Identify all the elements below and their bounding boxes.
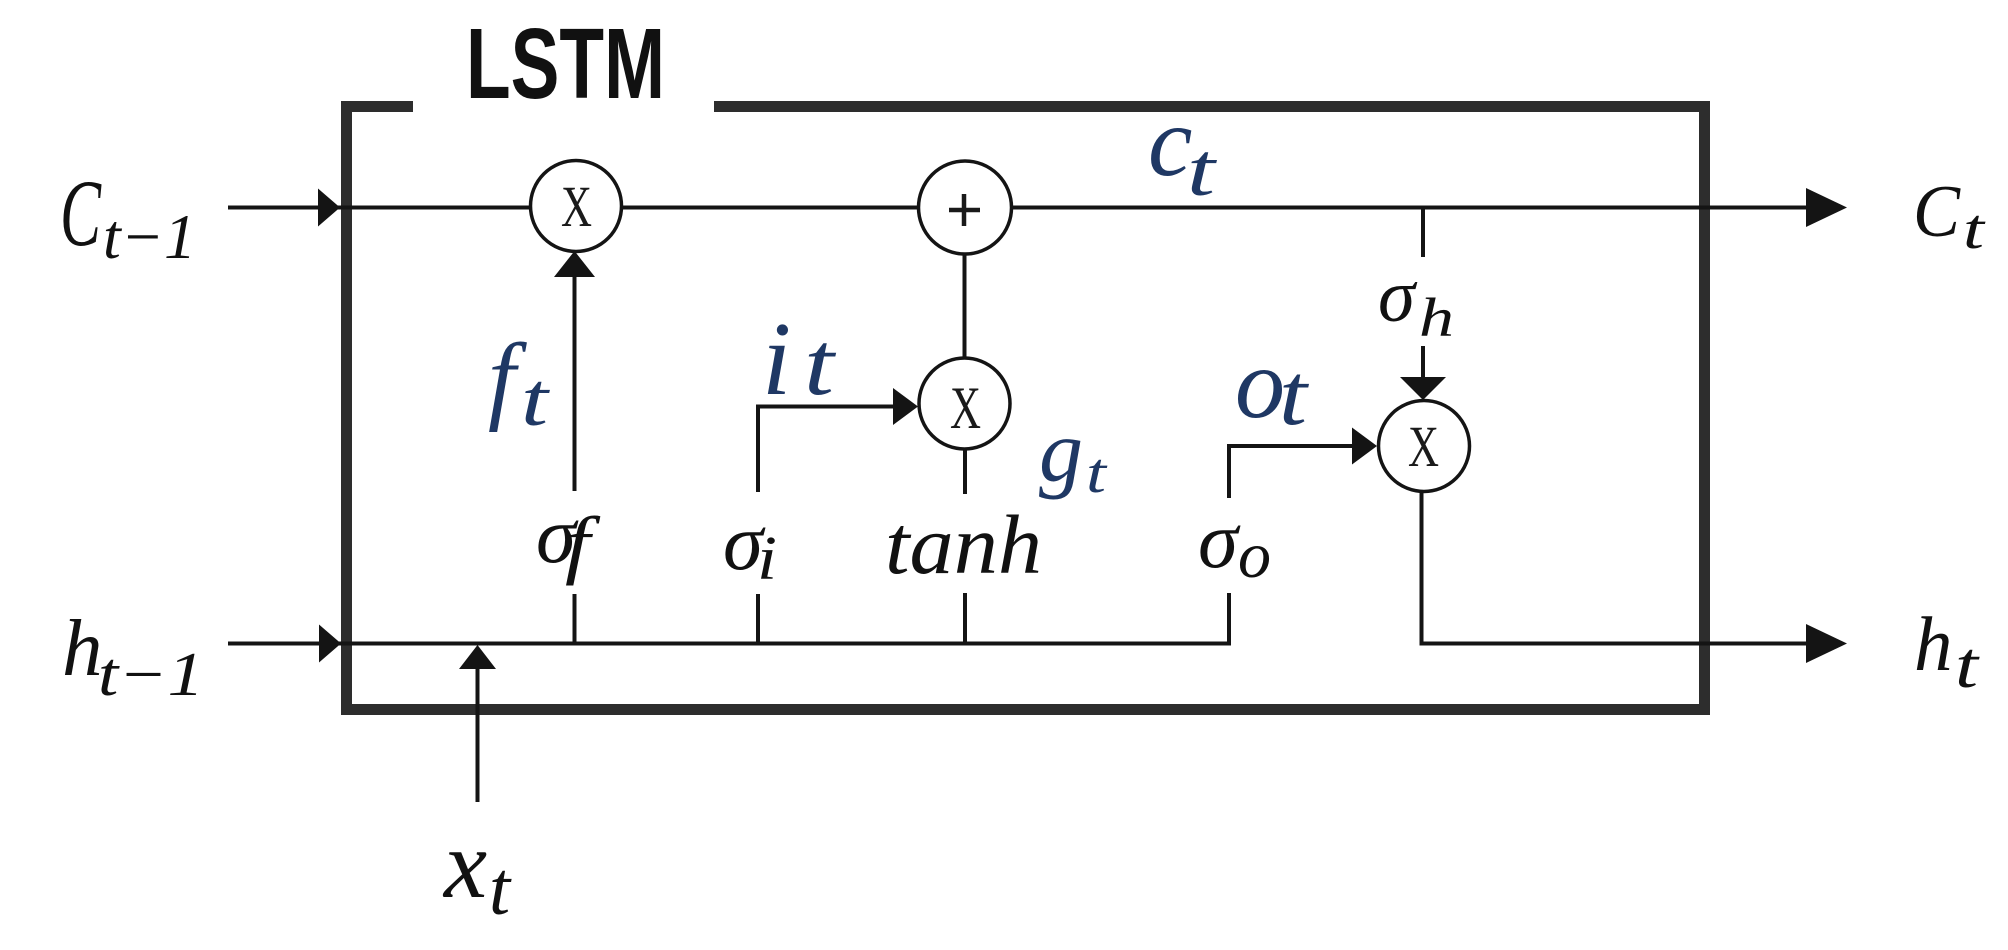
svg-text:h: h (62, 603, 103, 693)
wire sigma_o lower tick (1227, 593, 1231, 646)
arrowhead h input at box (319, 625, 341, 663)
arrowhead c output (1806, 188, 1847, 227)
LSTM cell box bottom border (341, 704, 1710, 715)
svg-text:t−1: t−1 (98, 641, 204, 709)
wire o_t elbow into X3 (1229, 446, 1353, 498)
svg-text:X: X (561, 174, 592, 239)
svg-text:σ: σ (1198, 495, 1241, 585)
svg-text:i: i (762, 300, 791, 417)
svg-text:g: g (1039, 404, 1083, 501)
LSTM cell box right border (1699, 101, 1710, 715)
wire tanh lower tick (963, 593, 967, 646)
wire cell-state line c (228, 206, 1808, 210)
svg-text:c: c (1148, 86, 1192, 197)
svg-text:t: t (1187, 129, 1218, 212)
svg-text:LSTM: LSTM (466, 8, 665, 120)
svg-text:t: t (1086, 442, 1107, 505)
svg-text:t: t (489, 847, 512, 931)
wire sigma_i lower tick (756, 594, 760, 646)
LSTM cell box left border (341, 101, 352, 715)
wire x_t input arrow (476, 668, 480, 802)
wire plus to X2 connector (963, 250, 967, 362)
wire i_t elbow into X2 (758, 407, 894, 493)
svg-text:i: i (757, 525, 777, 593)
svg-text:h: h (1419, 287, 1454, 348)
svg-text:h: h (1914, 601, 1953, 687)
svg-text:C: C (60, 160, 102, 266)
svg-text:t: t (804, 315, 836, 414)
svg-text:X: X (950, 375, 981, 441)
op multiply X2 (919, 358, 1010, 449)
svg-text:σ: σ (1378, 255, 1418, 338)
wire tanh upper tick (963, 448, 967, 494)
arrowhead c input at box (318, 189, 340, 227)
svg-text:t: t (1955, 629, 1980, 702)
arrowhead h output (1806, 624, 1847, 663)
svg-text:t: t (1279, 347, 1310, 444)
wire f_t vertical arrow into X1 (573, 275, 577, 491)
wire X3 down leg and h output (1422, 491, 1807, 644)
svg-text:X: X (1408, 414, 1439, 479)
op multiply X1 on c line (531, 161, 622, 252)
op multiply X3 (1379, 401, 1470, 492)
wire hidden-state line h (228, 642, 1229, 646)
svg-text:tanh: tanh (885, 499, 1042, 592)
svg-text:t−1: t−1 (103, 201, 196, 272)
LSTM cell box top border left segment (341, 101, 413, 112)
svg-text:o: o (1238, 519, 1271, 592)
LSTM cell box top border right segment (714, 101, 1710, 112)
svg-text:C: C (1913, 171, 1962, 253)
svg-text:t: t (521, 358, 550, 442)
svg-text:x: x (442, 811, 487, 918)
svg-text:t: t (1963, 198, 1986, 261)
wire sigma_h arrow down into X3 (1421, 346, 1425, 379)
wire sigma_h upper tick from c line (1421, 208, 1425, 258)
svg-text:o: o (1235, 328, 1285, 439)
wire sigma_f lower tick (573, 594, 577, 646)
op add plus on c line (919, 161, 1012, 254)
